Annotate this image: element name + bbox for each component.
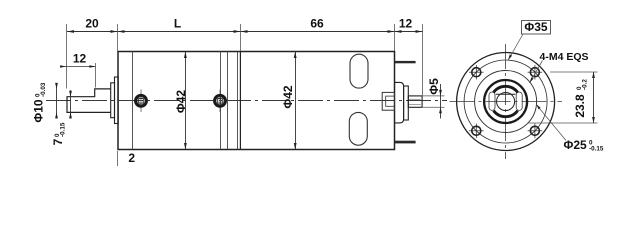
svg-text:12: 12 xyxy=(399,17,413,31)
svg-text:-0.03: -0.03 xyxy=(40,82,47,97)
svg-text:-0.15: -0.15 xyxy=(60,122,67,137)
svg-text:-0.2: -0.2 xyxy=(582,79,589,90)
svg-text:Φ10: Φ10 xyxy=(32,99,46,123)
svg-text:Φ35: Φ35 xyxy=(524,20,548,34)
svg-text:L: L xyxy=(174,17,181,31)
svg-text:66: 66 xyxy=(310,17,324,31)
svg-text:20: 20 xyxy=(85,17,99,31)
svg-text:7: 7 xyxy=(51,138,65,145)
svg-text:2: 2 xyxy=(128,151,135,165)
svg-text:23.8: 23.8 xyxy=(573,94,587,118)
svg-text:Φ42: Φ42 xyxy=(174,90,188,114)
svg-text:-0.15: -0.15 xyxy=(589,146,604,153)
svg-text:Φ5: Φ5 xyxy=(427,78,441,95)
svg-text:Φ42: Φ42 xyxy=(281,85,295,109)
svg-text:Φ25: Φ25 xyxy=(564,138,588,152)
svg-text:4-M4 EQS: 4-M4 EQS xyxy=(540,51,589,63)
svg-text:12: 12 xyxy=(73,52,87,66)
